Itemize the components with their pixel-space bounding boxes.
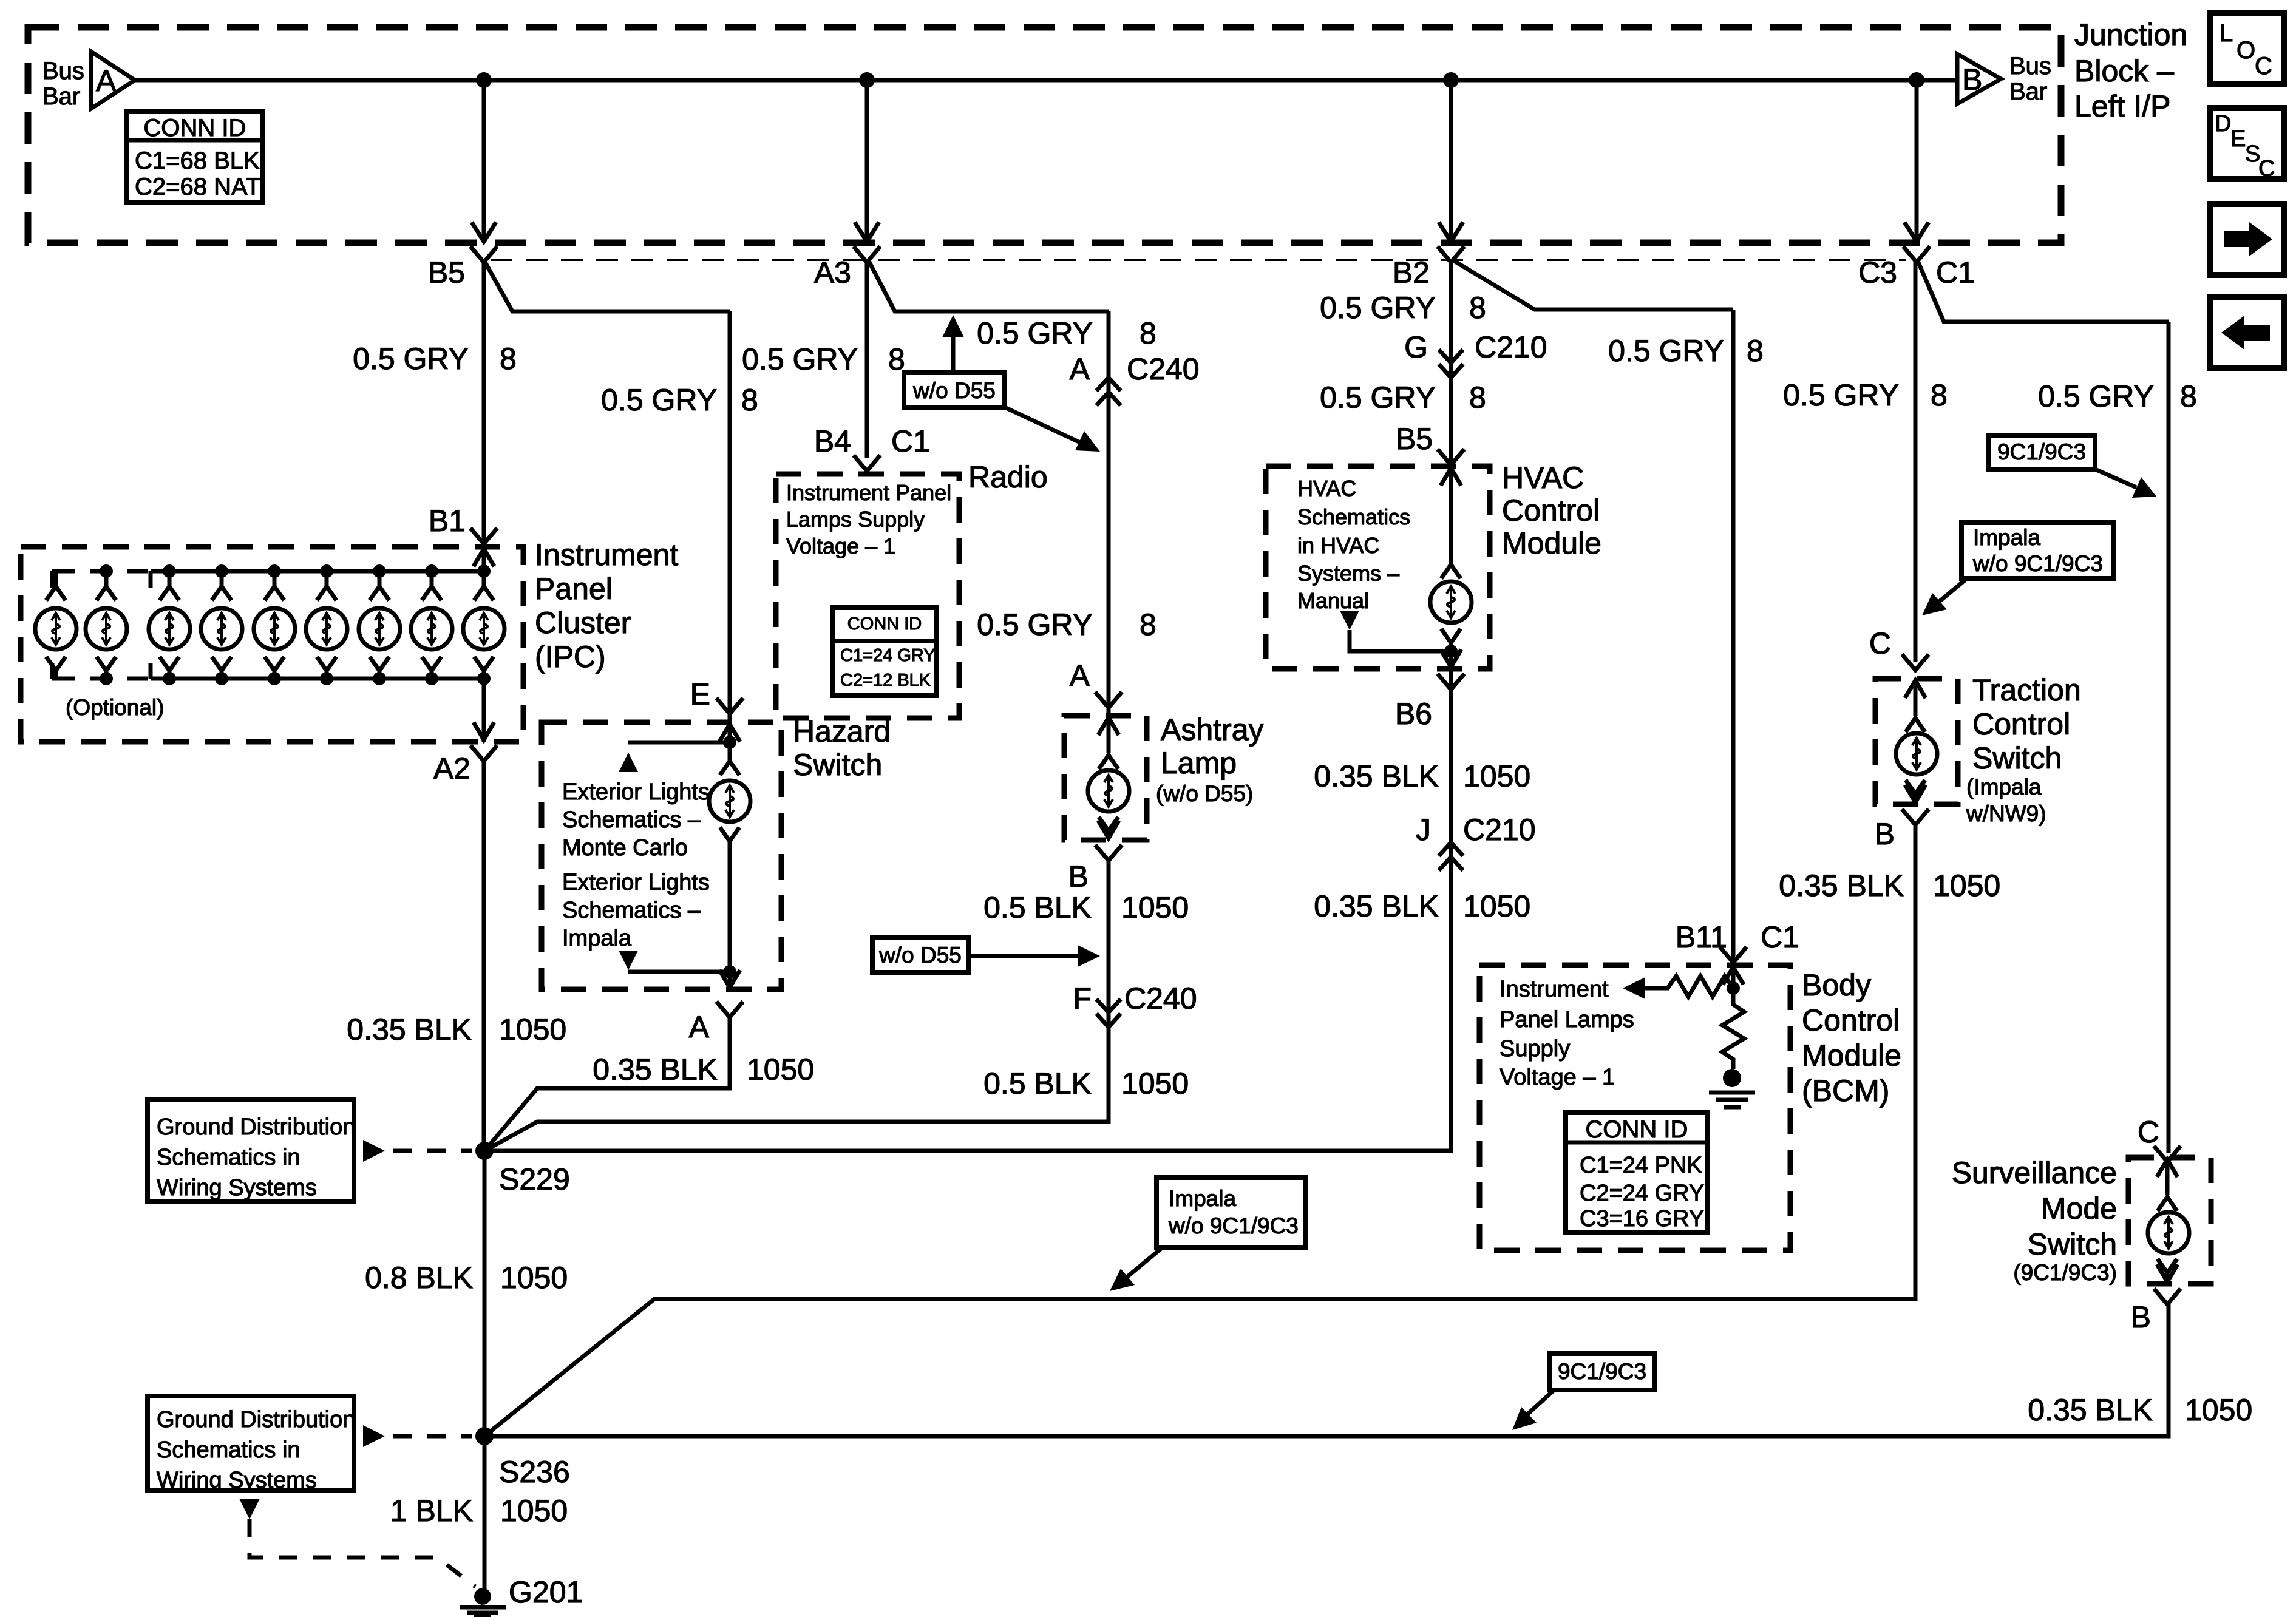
BCM dashed box bbox=[1479, 965, 1790, 1250]
ground link arrow 1 bbox=[363, 1140, 472, 1162]
9C1/9C3 arrow 2 bbox=[1512, 1390, 1554, 1430]
svg-text:Switch: Switch bbox=[793, 748, 882, 782]
svg-text:F: F bbox=[1073, 981, 1092, 1015]
svg-text:0.5 BLK: 0.5 BLK bbox=[983, 1066, 1092, 1100]
hazard exit arrow bbox=[719, 970, 740, 988]
svg-text:Ground Distribution: Ground Distribution bbox=[157, 1114, 355, 1140]
svg-text:w/o D55: w/o D55 bbox=[912, 378, 996, 403]
svg-text:Body: Body bbox=[1802, 968, 1871, 1002]
connector B (surveillance) bbox=[2131, 1289, 2181, 1334]
svg-text:Module: Module bbox=[1802, 1039, 1901, 1073]
connector A2 bbox=[433, 745, 497, 785]
label 0.5 GRY 8 (BCM wire) bbox=[1608, 334, 1764, 368]
svg-text:A: A bbox=[689, 1010, 710, 1044]
svg-text:8: 8 bbox=[1140, 608, 1156, 642]
9C1/9C3 callout box 2 bbox=[1550, 1354, 1654, 1390]
svg-text:Schematics in: Schematics in bbox=[157, 1145, 301, 1170]
label 0.5 BLK 1050 (ashtray B wire) bbox=[983, 890, 1189, 924]
svg-text:B6: B6 bbox=[1395, 697, 1432, 731]
svg-text:C: C bbox=[2138, 1115, 2159, 1149]
svg-text:Schematics –: Schematics – bbox=[562, 898, 701, 923]
9C1/9C3 arrow bbox=[2095, 469, 2156, 498]
svg-text:Exterior Lights: Exterior Lights bbox=[562, 779, 710, 805]
wire C1 branch right bbox=[1918, 261, 2169, 322]
S236 splice dot bbox=[475, 1427, 570, 1489]
svg-text:Schematics in: Schematics in bbox=[157, 1437, 301, 1463]
wire BCM feed down to B11 bbox=[1731, 310, 1736, 965]
label 0.35 BLK 1050 (A2 wire) bbox=[347, 1012, 566, 1046]
label 0.35 BLK 1050 (below J) bbox=[1314, 889, 1530, 923]
svg-text:0.35 BLK: 0.35 BLK bbox=[593, 1053, 718, 1086]
connector A3 bbox=[814, 246, 880, 290]
connector B6 bbox=[1395, 674, 1464, 731]
wire hazard feed down to E bbox=[728, 311, 732, 722]
svg-text:Cluster: Cluster bbox=[535, 606, 631, 640]
label 0.5 BLK 1050 (below F) bbox=[983, 1066, 1189, 1100]
IPC lamp 4 bbox=[201, 564, 242, 685]
svg-text:Supply: Supply bbox=[1500, 1036, 1570, 1062]
thin connector face line bbox=[491, 259, 1906, 261]
ashtray exit arrow bbox=[1098, 821, 1119, 838]
svg-text:A: A bbox=[1070, 352, 1090, 386]
Impala callout arrow bbox=[1922, 578, 1967, 615]
bus bar B bbox=[1957, 53, 2051, 105]
svg-text:1050: 1050 bbox=[1121, 890, 1189, 924]
junction block - left I/P dashed box bbox=[28, 27, 2061, 243]
svg-text:8: 8 bbox=[1140, 316, 1156, 350]
svg-text:B: B bbox=[1875, 817, 1895, 851]
svg-text:C1=24 GRY: C1=24 GRY bbox=[840, 646, 936, 665]
svg-text:(Optional): (Optional) bbox=[66, 695, 164, 720]
connector F C240 bbox=[1073, 981, 1197, 1027]
svg-text:0.5 GRY: 0.5 GRY bbox=[2038, 379, 2154, 413]
svg-text:A: A bbox=[1070, 659, 1090, 693]
ashtray lamp symbol bbox=[1088, 755, 1129, 831]
svg-text:(Impala: (Impala bbox=[1966, 775, 2042, 799]
bus bar A bbox=[42, 52, 135, 110]
IPC lamp 9 bbox=[463, 564, 504, 685]
svg-text:Instrument: Instrument bbox=[535, 538, 678, 572]
svg-text:w/o 9C1/9C3: w/o 9C1/9C3 bbox=[1972, 551, 2103, 576]
(Optional) label bbox=[66, 695, 164, 720]
ashtray lamp dashed box bbox=[1064, 716, 1147, 840]
svg-text:8: 8 bbox=[2180, 379, 2197, 413]
junction dot and drop wire to B5 bbox=[472, 72, 496, 242]
svg-text:C240: C240 bbox=[1127, 352, 1200, 386]
hazard node dot top bbox=[723, 736, 736, 749]
connector B1 (IPC) bbox=[429, 504, 497, 544]
svg-text:1050: 1050 bbox=[500, 1261, 568, 1295]
svg-text:C: C bbox=[2258, 156, 2275, 181]
svg-text:8: 8 bbox=[1931, 378, 1948, 412]
surveillance lamp bbox=[2148, 1197, 2189, 1273]
hazard box text Impala bbox=[562, 870, 710, 951]
IPC bottom bus wire bbox=[151, 677, 484, 681]
svg-text:C2=12 BLK: C2=12 BLK bbox=[840, 671, 931, 690]
svg-text:A: A bbox=[96, 64, 117, 98]
wire ashtray B to S229 bbox=[484, 861, 1109, 1151]
next arrow button bbox=[2210, 204, 2284, 275]
label 0.35 BLK 1050 (hazard A wire) bbox=[593, 1053, 814, 1086]
IPC lamp 3 bbox=[149, 564, 190, 685]
wire C3 down to traction switch bbox=[1914, 262, 1918, 662]
svg-text:B: B bbox=[2131, 1300, 2151, 1334]
svg-text:B5: B5 bbox=[428, 256, 465, 290]
svg-text:Block –: Block – bbox=[2074, 54, 2174, 88]
svg-text:C2=68 NAT: C2=68 NAT bbox=[135, 174, 260, 200]
svg-text:Schematics: Schematics bbox=[1297, 504, 1410, 529]
svg-text:Control: Control bbox=[1502, 493, 1600, 527]
CONN ID table (junction block) bbox=[127, 111, 263, 202]
svg-text:B2: B2 bbox=[1393, 256, 1430, 290]
surveillance entry arrow bbox=[2157, 1159, 2178, 1195]
junction dot and drop wire to A3 bbox=[855, 72, 879, 242]
svg-text:C1: C1 bbox=[1936, 256, 1975, 290]
label 0.5 GRY 8 (hazard feed wire) bbox=[601, 383, 758, 417]
svg-text:HVAC: HVAC bbox=[1502, 461, 1584, 495]
svg-text:Voltage – 1: Voltage – 1 bbox=[786, 534, 895, 558]
BCM node dot bbox=[1727, 981, 1740, 995]
hazard node dot bottom bbox=[723, 965, 736, 978]
wire B5 down to IPC B1 bbox=[482, 262, 486, 571]
svg-text:0.5 GRY: 0.5 GRY bbox=[742, 342, 858, 376]
S229 splice dot bbox=[475, 1142, 570, 1196]
connector B4 C1 bbox=[814, 424, 930, 471]
wire C1 down to surveillance bbox=[2167, 322, 2171, 1153]
svg-text:Junction: Junction bbox=[2074, 18, 2187, 52]
hazard switch label bbox=[793, 714, 891, 782]
ashtray lamp label bbox=[1156, 713, 1264, 806]
label 0.8 BLK 1050 bbox=[365, 1261, 568, 1295]
wire B6 down to S229 line bbox=[484, 669, 1451, 1151]
connector C (traction) bbox=[1869, 626, 1929, 670]
svg-text:0.5 GRY: 0.5 GRY bbox=[601, 383, 717, 417]
Impala w/o 9C1/9C3 callout box 2 bbox=[1156, 1178, 1305, 1247]
svg-text:Lamp: Lamp bbox=[1161, 746, 1237, 780]
HVAC entry arrow bbox=[1441, 468, 1461, 504]
connector A (hazard) bbox=[689, 1002, 743, 1044]
svg-text:w/o D55: w/o D55 bbox=[878, 943, 962, 968]
label 1 BLK 1050 bbox=[390, 1494, 568, 1528]
Impala callout 2 arrow bbox=[1110, 1247, 1163, 1291]
svg-text:Manual: Manual bbox=[1297, 588, 1369, 613]
BCM horizontal resistor with arrow bbox=[1623, 976, 1733, 999]
svg-text:J: J bbox=[1416, 813, 1431, 847]
svg-text:Traction: Traction bbox=[1972, 673, 2081, 707]
svg-text:CONN ID: CONN ID bbox=[1586, 1116, 1688, 1143]
svg-text:Wiring Systems: Wiring Systems bbox=[157, 1468, 317, 1493]
svg-text:Bar: Bar bbox=[42, 83, 80, 110]
svg-text:G: G bbox=[1404, 330, 1428, 364]
svg-text:Control: Control bbox=[1802, 1003, 1900, 1037]
IPLSV text (radio box) bbox=[786, 480, 951, 558]
svg-text:Voltage – 1: Voltage – 1 bbox=[1500, 1065, 1615, 1090]
9C1/9C3 callout box bbox=[1989, 435, 2095, 469]
connector B5 (HVAC) bbox=[1396, 422, 1464, 465]
svg-text:C210: C210 bbox=[1463, 813, 1536, 847]
svg-text:0.35 BLK: 0.35 BLK bbox=[1314, 759, 1439, 793]
w/o D55 callout box 2 bbox=[872, 937, 968, 972]
junction dot and drop wire to C3/C1 bbox=[1904, 72, 1929, 242]
HVAC control module dashed box bbox=[1266, 466, 1490, 669]
BCM label bbox=[1802, 968, 1901, 1108]
svg-text:B: B bbox=[1068, 859, 1089, 893]
svg-text:Panel: Panel bbox=[535, 572, 613, 606]
svg-text:Impala: Impala bbox=[1169, 1186, 1236, 1211]
wire S229 to S236 bbox=[483, 1151, 487, 1436]
label 0.5 GRY 8 (radio wire top) bbox=[977, 316, 1156, 350]
svg-text:C1=24 PNK: C1=24 PNK bbox=[1580, 1153, 1702, 1178]
svg-text:Switch: Switch bbox=[1972, 741, 2062, 775]
svg-text:8: 8 bbox=[1747, 334, 1764, 368]
svg-text:Exterior Lights: Exterior Lights bbox=[562, 870, 710, 895]
HVAC lamp bbox=[1430, 503, 1472, 669]
svg-text:Schematics –: Schematics – bbox=[562, 807, 701, 833]
bus bar wire bbox=[135, 78, 1957, 83]
svg-text:8: 8 bbox=[741, 383, 758, 417]
w/o D55 arrow to radio wire bbox=[1005, 407, 1100, 452]
svg-text:(w/o D55): (w/o D55) bbox=[1156, 781, 1253, 806]
optional lamps dashed box bbox=[52, 571, 151, 679]
hazard entry arrow bbox=[719, 724, 740, 760]
svg-text:1 BLK: 1 BLK bbox=[390, 1494, 473, 1528]
svg-text:C1: C1 bbox=[1761, 920, 1799, 954]
ground distribution box 1 bbox=[148, 1100, 355, 1202]
IPC dashed box bbox=[21, 547, 523, 742]
svg-text:Control: Control bbox=[1972, 707, 2070, 741]
DESC button bbox=[2210, 108, 2284, 181]
w/o D55 callout box (radio) bbox=[904, 373, 1005, 407]
BCM vertical resistor bbox=[1722, 988, 1744, 1069]
radio label bbox=[968, 460, 1048, 494]
svg-text:8: 8 bbox=[1469, 291, 1486, 325]
IPC top bus wire bbox=[151, 569, 484, 574]
svg-text:0.35 BLK: 0.35 BLK bbox=[2028, 1393, 2153, 1427]
svg-text:1050: 1050 bbox=[499, 1012, 566, 1046]
wire A3 branch to radio bbox=[868, 260, 1109, 311]
connector B (traction) bbox=[1875, 809, 1929, 851]
svg-text:0.35 BLK: 0.35 BLK bbox=[1314, 889, 1439, 923]
traction control switch dashed box bbox=[1875, 679, 1958, 804]
wire B5 branch to hazard switch bbox=[484, 261, 730, 311]
svg-text:Wiring Systems: Wiring Systems bbox=[157, 1175, 317, 1201]
svg-text:1050: 1050 bbox=[1463, 889, 1530, 923]
svg-text:Systems –: Systems – bbox=[1297, 561, 1399, 586]
svg-text:E: E bbox=[690, 677, 710, 711]
LOC button bbox=[2210, 13, 2284, 84]
svg-text:0.5 GRY: 0.5 GRY bbox=[977, 608, 1093, 642]
connector A C240 (radio wire) bbox=[1070, 352, 1200, 405]
IPC lamp 5 bbox=[254, 564, 295, 685]
svg-text:O: O bbox=[2237, 37, 2255, 64]
svg-text:Bar: Bar bbox=[2009, 78, 2047, 105]
hazard box text Monte Carlo bbox=[562, 779, 710, 861]
svg-text:C240: C240 bbox=[1124, 981, 1197, 1015]
HVAC node dot bbox=[1444, 645, 1458, 658]
IPC label bbox=[535, 538, 678, 674]
wire traction B down to S236 bbox=[484, 825, 1915, 1436]
svg-text:B5: B5 bbox=[1396, 422, 1433, 456]
ground distribution box 2 bbox=[148, 1396, 355, 1493]
label 0.5 GRY 8 (B2 wire) bbox=[1320, 291, 1486, 325]
BCM entry arrow bbox=[1723, 967, 1744, 1003]
svg-text:0.5 GRY: 0.5 GRY bbox=[1783, 378, 1899, 412]
svg-text:C3=16 GRY: C3=16 GRY bbox=[1580, 1206, 1704, 1232]
Impala w/o 9C1/9C3 callout box bbox=[1961, 523, 2114, 578]
svg-text:Bus: Bus bbox=[2009, 53, 2051, 80]
label 0.5 GRY 8 (C1 wire) bbox=[2038, 379, 2197, 413]
svg-text:Surveillance: Surveillance bbox=[1952, 1156, 2117, 1190]
svg-text:Module: Module bbox=[1502, 526, 1601, 560]
svg-text:in HVAC: in HVAC bbox=[1297, 533, 1379, 558]
svg-text:Lamps Supply: Lamps Supply bbox=[786, 507, 925, 532]
svg-text:B: B bbox=[1962, 63, 1982, 97]
wire B2 branch to BCM bbox=[1452, 260, 1733, 310]
ground G201 bbox=[460, 1575, 583, 1617]
svg-text:0.8 BLK: 0.8 BLK bbox=[365, 1261, 473, 1295]
ashtray entry arrow bbox=[1098, 717, 1119, 753]
svg-text:1050: 1050 bbox=[1121, 1066, 1189, 1100]
wire S236 to G201 bbox=[483, 1436, 487, 1594]
svg-text:w/NW9): w/NW9) bbox=[1966, 801, 2046, 826]
svg-text:Instrument Panel: Instrument Panel bbox=[786, 480, 951, 505]
svg-text:0.5 GRY: 0.5 GRY bbox=[977, 316, 1093, 350]
connector A (ashtray) bbox=[1070, 659, 1122, 708]
svg-text:Left I/P: Left I/P bbox=[2074, 89, 2170, 123]
junction dot and drop wire to B2 bbox=[1439, 72, 1463, 242]
instrument panel lamps supply voltage box (radio) bbox=[776, 474, 959, 718]
svg-text:Panel Lamps: Panel Lamps bbox=[1500, 1007, 1634, 1032]
svg-text:B1: B1 bbox=[429, 504, 466, 538]
wire radio down to ashtray bbox=[1107, 311, 1111, 716]
label 0.5 GRY 8 (C3 wire) bbox=[1783, 378, 1948, 412]
IPC lamp 8 bbox=[411, 564, 452, 685]
wire surveillance B down to S236 line bbox=[484, 1304, 2169, 1436]
wire A3 down to B4 bbox=[865, 262, 869, 458]
connector C3 C1 bbox=[1858, 246, 1975, 290]
IPC exit arrow and wire to A2 bbox=[474, 679, 494, 742]
connector C (surveillance) bbox=[2138, 1115, 2181, 1162]
ground link arrow 2 bbox=[363, 1425, 472, 1447]
hazard stub to Monte Carlo schematics (up triangle) bbox=[619, 742, 730, 772]
label 0.5 GRY 8 (A3 wire) bbox=[742, 342, 905, 376]
svg-text:8: 8 bbox=[500, 342, 517, 376]
connector B11 C1 bbox=[1676, 920, 1799, 963]
svg-text:0.5 GRY: 0.5 GRY bbox=[1320, 291, 1436, 325]
label 0.5 GRY 8 (B5 wire) bbox=[353, 342, 517, 376]
svg-text:C3: C3 bbox=[1858, 256, 1897, 290]
svg-text:G201: G201 bbox=[509, 1575, 583, 1609]
surveillance exit arrow bbox=[2157, 1264, 2178, 1282]
connector B (ashtray) bbox=[1068, 845, 1122, 893]
hazard switch dashed box bbox=[542, 722, 781, 989]
wire hazard A to S229 bbox=[484, 1017, 730, 1151]
label 0.35 BLK 1050 (surveillance B wire) bbox=[2028, 1393, 2252, 1427]
hazard lamp bbox=[709, 742, 750, 972]
HVAC exit arrow bbox=[1441, 649, 1461, 667]
svg-text:B4: B4 bbox=[814, 424, 851, 458]
svg-text:Instrument: Instrument bbox=[1500, 977, 1609, 1002]
svg-text:9C1/9C3: 9C1/9C3 bbox=[1997, 439, 2086, 464]
connector B2 bbox=[1393, 246, 1464, 290]
svg-text:1050: 1050 bbox=[747, 1053, 814, 1086]
surveillance mode switch label bbox=[1952, 1156, 2117, 1285]
svg-text:(BCM): (BCM) bbox=[1802, 1074, 1889, 1108]
svg-text:L: L bbox=[2220, 20, 2233, 47]
svg-text:E: E bbox=[2230, 126, 2246, 152]
svg-text:1050: 1050 bbox=[1463, 759, 1530, 793]
BCM internal ground bbox=[1709, 1069, 1755, 1107]
connector J C210 bbox=[1416, 813, 1536, 870]
svg-text:0.35 BLK: 0.35 BLK bbox=[1779, 869, 1904, 903]
svg-text:C1=68 BLK: C1=68 BLK bbox=[135, 147, 260, 174]
label 0.5 GRY 8 (below C210) bbox=[1320, 381, 1486, 415]
svg-text:S236: S236 bbox=[499, 1455, 570, 1489]
svg-text:CONN ID: CONN ID bbox=[144, 115, 246, 141]
svg-text:A3: A3 bbox=[814, 256, 851, 290]
ground box 2 down triangle bbox=[239, 1499, 475, 1587]
connector G C210 bbox=[1404, 330, 1547, 378]
svg-text:C2=24 GRY: C2=24 GRY bbox=[1580, 1181, 1704, 1206]
svg-text:S229: S229 bbox=[499, 1162, 570, 1196]
traction exit arrow bbox=[1905, 785, 1926, 802]
svg-text:C: C bbox=[1869, 626, 1891, 660]
connector B5 bbox=[428, 246, 497, 290]
svg-text:w/o 9C1/9C3: w/o 9C1/9C3 bbox=[1168, 1213, 1299, 1238]
prev arrow button bbox=[2210, 297, 2284, 368]
svg-text:0.5 GRY: 0.5 GRY bbox=[353, 342, 469, 376]
surveillance mode switch dashed box bbox=[2128, 1158, 2211, 1284]
svg-text:Impala: Impala bbox=[1973, 525, 2040, 550]
IPC lamp 1 bbox=[35, 571, 76, 679]
wire A2 down to S229 bbox=[482, 761, 486, 1151]
IPC lamp 6 bbox=[306, 564, 347, 685]
wire B2 down through C210 to HVAC bbox=[1449, 262, 1453, 466]
svg-text:(IPC): (IPC) bbox=[535, 640, 606, 674]
HVAC control module label bbox=[1502, 461, 1601, 560]
IPC entry arrow bbox=[474, 549, 494, 585]
svg-text:0.5 BLK: 0.5 BLK bbox=[983, 890, 1092, 924]
svg-text:Ashtray: Ashtray bbox=[1161, 713, 1264, 747]
svg-text:8: 8 bbox=[1469, 381, 1486, 415]
BCM box text bbox=[1500, 977, 1634, 1090]
label 0.35 BLK 1050 (B6 wire) bbox=[1314, 759, 1530, 793]
svg-text:0.5 GRY: 0.5 GRY bbox=[1608, 334, 1724, 368]
svg-text:A2: A2 bbox=[433, 751, 470, 785]
svg-text:Bus: Bus bbox=[42, 58, 84, 84]
IPC lamp 7 bbox=[359, 564, 400, 685]
svg-text:C: C bbox=[2255, 53, 2272, 80]
junction block label bbox=[2074, 18, 2187, 123]
svg-text:D: D bbox=[2215, 111, 2231, 137]
label 0.35 BLK 1050 (traction B wire) bbox=[1779, 869, 2000, 903]
HVAC box text bbox=[1297, 476, 1410, 613]
hazard stub to Impala schematics (down triangle) bbox=[619, 951, 730, 972]
label 0.5 GRY 8 (ashtray wire) bbox=[977, 608, 1156, 642]
svg-text:HVAC: HVAC bbox=[1297, 476, 1356, 501]
svg-text:(9C1/9C3): (9C1/9C3) bbox=[2013, 1260, 2117, 1285]
w/o D55 arrow up bbox=[942, 315, 964, 373]
HVAC stub triangle (to HVAC schematics) bbox=[1340, 611, 1451, 651]
svg-text:Ground Distribution: Ground Distribution bbox=[157, 1407, 355, 1432]
connector E (hazard) bbox=[690, 677, 743, 714]
IPC lamp 2 bbox=[86, 564, 127, 685]
svg-text:9C1/9C3: 9C1/9C3 bbox=[1558, 1359, 1646, 1384]
svg-text:Switch: Switch bbox=[2028, 1227, 2117, 1261]
traction lamp bbox=[1896, 718, 1937, 794]
svg-text:C210: C210 bbox=[1475, 330, 1547, 364]
svg-text:1050: 1050 bbox=[500, 1494, 568, 1528]
